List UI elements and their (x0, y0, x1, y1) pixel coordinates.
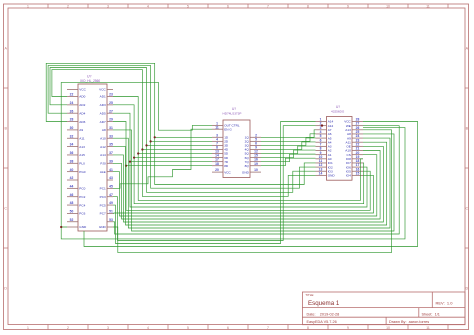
wire VCC net: U1 bottom stub around bottom right up to U3 VCC (84, 122, 418, 247)
svg-text:33: 33 (109, 134, 113, 138)
wire A11 net: U1 pin35 to U3 A11 (113, 142, 387, 225)
svg-text:39: 39 (109, 159, 113, 163)
svg-text:U?: U? (87, 74, 92, 78)
wire A14 net: U1 pin49 around left of U3 to A14 (113, 122, 316, 244)
wire ALE net: U2 pin11 EN G staircase down-left to U1 pin45 (113, 129, 212, 188)
title block outline (302, 292, 465, 325)
svg-text:EasyEDA V5.7.26: EasyEDA V5.7.26 (307, 320, 337, 324)
svg-text:AD3: AD3 (100, 103, 106, 107)
svg-text:AD6: AD6 (79, 120, 85, 124)
svg-text:49: 49 (109, 201, 113, 205)
svg-text:24: 24 (70, 101, 74, 105)
svg-text:IO4: IO4 (346, 174, 351, 178)
svg-text:REV: 1.0: REV: 1.0 (436, 300, 454, 305)
svg-text:42: 42 (70, 176, 74, 180)
wire AD5 net: U1 pin27 down bus, around bottom to U3 IO6 (113, 113, 367, 207)
svg-text:C: C (465, 206, 468, 210)
svg-text:4: 4 (147, 4, 149, 8)
svg-text:PC3: PC3 (100, 195, 106, 199)
svg-text:41: 41 (109, 168, 113, 172)
IC U1 pins left side (VCC, AD0-PC6, GND) with numbers 22-52 (67, 88, 87, 230)
IC U2 pin 1 OUT CTRL (212, 122, 240, 128)
svg-text:D: D (4, 286, 7, 290)
svg-text:A8: A8 (102, 128, 106, 132)
wire GND long run: branch down from U1 GND to bottom rail joining VCC column (61, 128, 405, 239)
svg-text:GND: GND (99, 225, 107, 229)
svg-text:A11: A11 (79, 136, 85, 140)
svg-text:2: 2 (67, 326, 69, 330)
svg-text:34: 34 (70, 143, 74, 147)
svg-text:A15: A15 (79, 153, 85, 157)
wires latch outputs 1Q-8Q to U3 address pins A0-A7 weave (261, 130, 316, 166)
wire A13 net: U1 right GND stub down around bottom to U3 A13 (113, 130, 392, 253)
svg-text:10: 10 (386, 4, 390, 8)
svg-text:6: 6 (227, 326, 229, 330)
wire OE net: U1 pin37 to U3 OE (113, 146, 383, 222)
frame row ticks and letters (4, 46, 469, 290)
svg-text:2: 2 (67, 4, 69, 8)
wire AD7 net: U1 pin29 down bus, around bottom to U3 IO5 (113, 122, 370, 211)
wire branches from bus junctions to U2 data inputs 1D-8D (126, 137, 212, 165)
svg-text:19: 19 (254, 162, 258, 166)
svg-text:GND: GND (79, 225, 87, 229)
svg-text:7: 7 (267, 4, 269, 8)
svg-text:VCC: VCC (79, 88, 86, 92)
svg-text:47: 47 (109, 193, 113, 197)
svg-text:A14: A14 (100, 153, 106, 157)
svg-text:EN G: EN G (224, 128, 232, 132)
junction dots on AD bus diagonal (125, 136, 156, 167)
svg-text:25: 25 (109, 101, 113, 105)
junction flag dot at U3 A12 stub (321, 124, 323, 126)
svg-text:31: 31 (109, 126, 113, 130)
svg-text:PJ0: PJ0 (100, 162, 106, 166)
wire A9 net: U1 pin33 to U3 A9 (113, 138, 390, 228)
svg-text:15: 15 (356, 171, 360, 175)
IC U2 power pins VCC 20 and GND 10 (212, 168, 261, 174)
svg-text:10: 10 (254, 168, 258, 172)
IC U1 pins right side (VCC, AD1-PC7, GND) with numbers 23-53 (99, 88, 113, 230)
svg-text:8: 8 (307, 326, 309, 330)
svg-text:4: 4 (147, 326, 149, 330)
svg-text:C: C (4, 206, 7, 210)
wire A8 net: U1 pin31 down and right to U3 A8 (113, 130, 394, 231)
svg-text:Esquema 1: Esquema 1 (308, 300, 340, 307)
svg-text:52: 52 (70, 218, 74, 222)
svg-text:1: 1 (27, 4, 29, 8)
svg-text:30: 30 (70, 126, 74, 130)
svg-text:26: 26 (70, 109, 74, 113)
wire AD2 net: U1 pin24 over top to bus then U3 IO3 (50, 68, 316, 193)
svg-text:A10: A10 (100, 136, 106, 140)
svg-text:PC1: PC1 (100, 187, 106, 191)
svg-text:HD74LS373P: HD74LS373P (223, 112, 242, 116)
svg-text:36: 36 (70, 151, 74, 155)
svg-text:53: 53 (109, 218, 113, 222)
svg-text:28: 28 (70, 118, 74, 122)
svg-text:40: 40 (70, 168, 74, 172)
svg-text:AD0: AD0 (79, 95, 85, 99)
wire IO4 net: U1 pin51 around bottom to U3 IO4 (113, 175, 374, 213)
svg-text:AD1: AD1 (100, 95, 106, 99)
svg-text:45: 45 (109, 184, 113, 188)
IC U2 body (223, 120, 250, 178)
svg-text:3: 3 (107, 326, 109, 330)
svg-text:A9: A9 (79, 128, 83, 132)
svg-text:50: 50 (70, 210, 74, 214)
svg-text:51: 51 (109, 210, 113, 214)
wire OC net: U1 left GND pin up over top to U2 pin1 OUT CTRL (61, 82, 212, 227)
svg-text:Date: 2019-02-28: Date: 2019-02-28 (307, 312, 340, 316)
svg-text:48: 48 (70, 201, 74, 205)
IC U1 body (78, 84, 107, 231)
svg-text:9: 9 (347, 4, 349, 8)
svg-text:38: 38 (70, 159, 74, 163)
IC U3 pins right side VCC-IO4 numbers 28-15 (344, 118, 363, 178)
svg-text:ALE: ALE (100, 170, 106, 174)
wire AD4 net: U1 pin26 over top to bus then U3 IO2 (48, 65, 315, 188)
svg-text:27: 27 (109, 109, 113, 113)
svg-text:5: 5 (187, 326, 189, 330)
svg-text:8Q: 8Q (245, 164, 250, 168)
svg-text:23: 23 (109, 93, 113, 97)
svg-text:8: 8 (307, 4, 309, 8)
wire AD6 net: U1 pin28 over top to bus then U3 IO1 (46, 63, 315, 184)
svg-text:PC6: PC6 (79, 212, 85, 216)
wire AD0 net: U1 pin22 over top to bus, down to RAM GND-row branch via left wrap (52, 70, 316, 197)
wire AD3 net: U1 pin25 down bus, around bottom to U3 IO7 (113, 105, 364, 204)
svg-text:7: 7 (267, 326, 269, 330)
svg-text:43: 43 (109, 176, 113, 180)
svg-text:D: D (465, 286, 468, 290)
svg-text:VCC: VCC (224, 170, 231, 174)
svg-text:GND: GND (328, 174, 336, 178)
svg-text:A12: A12 (100, 145, 106, 149)
IC U3 pins left side A14-GND numbers 1-14 (316, 118, 336, 178)
wire CS net: U1 pin41 to U3 CS (113, 155, 377, 216)
svg-text:43256DG: 43256DG (331, 110, 345, 114)
svg-text:20: 20 (215, 168, 219, 172)
svg-text:AD7: AD7 (100, 120, 106, 124)
svg-text:AD5: AD5 (100, 111, 106, 115)
wire WE net: U1 pin53 around bottom to U3 WE (113, 126, 399, 234)
svg-text:AD4: AD4 (79, 111, 85, 115)
svg-text:3: 3 (107, 4, 109, 8)
svg-text:GND: GND (242, 170, 250, 174)
IC U2 pin 11 EN G (212, 126, 232, 132)
svg-text:PC5: PC5 (100, 203, 106, 207)
svg-text:PC4: PC4 (79, 203, 85, 207)
wire A10 net: U1 pin39 to U3 A10 (113, 151, 380, 220)
svg-text:46: 46 (70, 193, 74, 197)
svg-text:32: 32 (70, 134, 74, 138)
svg-text:11: 11 (426, 326, 430, 330)
svg-text:18: 18 (215, 162, 219, 166)
IC U2 data input pins 1D-8D (212, 133, 229, 168)
svg-text:5: 5 (187, 4, 189, 8)
svg-text:PC7: PC7 (100, 212, 106, 216)
svg-text:29: 29 (109, 118, 113, 122)
svg-text:Sheet: 1/1: Sheet: 1/1 (422, 312, 440, 316)
svg-text:11: 11 (215, 126, 219, 130)
svg-text:TITLE:: TITLE: (305, 293, 314, 297)
IC U3 body (327, 117, 353, 181)
svg-text:PC2: PC2 (79, 195, 85, 199)
title block row dividers (302, 292, 465, 325)
svg-text:PL0: PL0 (79, 162, 85, 166)
svg-text:14: 14 (319, 171, 323, 175)
svg-text:10: 10 (386, 326, 390, 330)
wire A12 net: U1 pin47 around left of U3 to A12 (113, 126, 316, 241)
svg-text:1: 1 (27, 326, 29, 330)
svg-text:35: 35 (109, 143, 113, 147)
svg-text:11: 11 (426, 4, 430, 8)
junction dot at U1 GND branch (60, 226, 62, 228)
svg-text:22: 22 (70, 93, 74, 97)
svg-text:PG0: PG0 (79, 170, 85, 174)
svg-text:PC0: PC0 (79, 187, 85, 191)
IC U2 latch output pins 1Q-8Q (245, 133, 261, 168)
svg-text:VCC: VCC (99, 88, 106, 92)
svg-text:9: 9 (347, 326, 349, 330)
svg-text:AD2: AD2 (79, 103, 85, 107)
svg-text:A13: A13 (79, 145, 85, 149)
svg-text:44: 44 (70, 184, 74, 188)
svg-text:37: 37 (109, 151, 113, 155)
svg-text:Drawn By: aaron.torres: Drawn By: aaron.torres (389, 320, 429, 324)
svg-text:6: 6 (227, 4, 229, 8)
wire AD1 net: U1 pin23 down bus, around bottom to U3 IO8 (113, 97, 363, 201)
